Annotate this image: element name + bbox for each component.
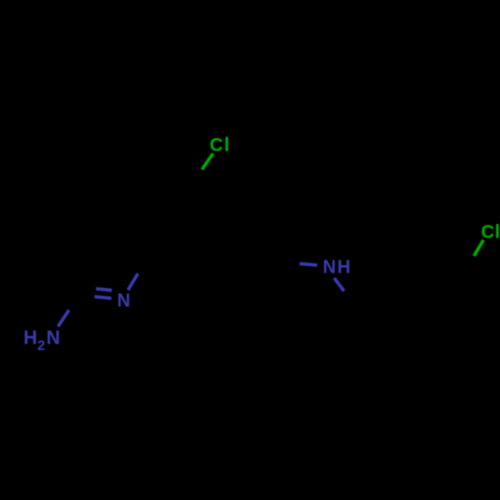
wire: carbon skeleton (black, invisible on black bg)	[64, 169, 480, 373]
svg-text:H: H	[337, 256, 350, 277]
chlorine Cl1 label	[210, 134, 230, 156]
chlorine Cl2 label	[481, 221, 500, 243]
pyridine N1 double bond inner half (blue)	[96, 289, 112, 291]
svg-text:2: 2	[37, 337, 45, 353]
chlorine Cl2 half-bond (green)	[474, 240, 484, 256]
bond Cl2-C2' black half	[461, 256, 474, 280]
bond C3'-C4'	[448, 330, 480, 372]
bond CH2-C1'	[359, 302, 413, 315]
svg-text:N: N	[323, 256, 336, 277]
bond C1'-C2'	[413, 280, 461, 302]
bond NH-CH2 black half	[344, 291, 359, 315]
amine H2N half-bond (blue)	[58, 310, 69, 327]
bond C5'-C6'	[377, 330, 394, 373]
svg-text:N: N	[117, 289, 130, 310]
pyridine N1 label	[117, 289, 130, 310]
bond H2N-C2a black half	[69, 284, 85, 311]
amine H2N label	[24, 328, 61, 353]
bond C6'-C1'	[377, 302, 413, 330]
pyridine N1 single bond half (blue)	[128, 274, 138, 291]
amine NH left half-bond (blue)	[300, 264, 318, 265]
bond N1-C8a black half	[138, 248, 153, 274]
pyridine N1 double bond main half (blue)	[94, 297, 111, 299]
bond NH-Cb black half	[270, 261, 300, 264]
amine NH label	[323, 256, 351, 277]
svg-text:l: l	[224, 135, 229, 156]
bond C4-C8a	[153, 248, 215, 273]
svg-text:C: C	[481, 221, 494, 242]
bond N1=C2 black half	[64, 294, 94, 297]
bond C8-C8a	[153, 193, 188, 248]
bond C8-C7	[188, 181, 243, 193]
bond C5-C4	[215, 261, 270, 273]
bond C7-C6	[243, 181, 281, 224]
bond C4'-C5'	[394, 372, 448, 373]
bond C6-C5	[270, 224, 281, 261]
amine NH right half-bond (blue)	[334, 278, 344, 291]
svg-text:N: N	[46, 328, 60, 349]
svg-text:l: l	[495, 222, 500, 243]
chlorine Cl1 half-bond (green)	[202, 154, 213, 170]
bond Cl1-C8 black half	[188, 169, 202, 193]
svg-text:H: H	[24, 328, 38, 349]
bond C2'-C3'	[461, 280, 480, 330]
svg-text:C: C	[210, 134, 223, 155]
